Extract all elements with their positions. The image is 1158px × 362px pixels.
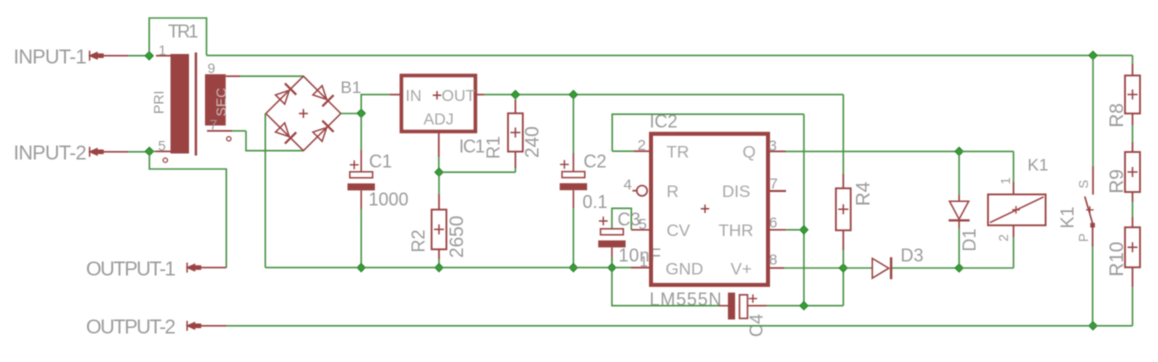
pin stub TR1 pin5	[156, 150, 171, 152]
resistor R8	[1125, 76, 1140, 114]
junction ADJ / R1 / R2	[435, 168, 443, 176]
resistor R9	[1125, 152, 1140, 192]
polarity + of K1 coil	[1012, 206, 1020, 214]
polarity + of C2	[560, 160, 569, 169]
junction Q / D1 top	[955, 147, 963, 155]
wire rail down to R4	[842, 95, 844, 174]
svg-text:R4: R4	[854, 181, 875, 206]
pin stub IC2 Q	[768, 150, 786, 152]
junction bridge out / C1 / IC1 IN	[357, 109, 365, 117]
polarity + of C4	[749, 294, 757, 302]
lead relay K1 pin1	[1013, 182, 1015, 194]
svg-text:0.1: 0.1	[583, 192, 608, 212]
wire relay pin2 up	[1013, 237, 1015, 268]
wire D1 node to relay pin2 corner	[959, 267, 1013, 269]
wire bridge DC+ to node	[341, 113, 361, 115]
timer IC2 box	[651, 134, 768, 285]
lead R10 top	[1132, 217, 1134, 227]
resistor R4	[836, 188, 851, 230]
pin stub IC1 IN	[390, 94, 401, 96]
wire INPUT-1 lead	[103, 55, 128, 57]
pin stub IC2 V+	[768, 267, 784, 269]
polarity dot TR1 secondary	[227, 137, 231, 141]
svg-text:3: 3	[769, 138, 777, 155]
transformer TR1 core lines	[195, 53, 197, 156]
svg-text:D3: D3	[901, 246, 924, 266]
wire C1 to gnd bus	[360, 209, 362, 268]
wire INPUT-2 lead	[103, 151, 128, 153]
pin stub IC2 GND	[631, 267, 650, 269]
junction C1 / gnd bus	[357, 264, 365, 272]
wire node down to C1	[360, 113, 362, 150]
svg-text:2650: 2650	[447, 216, 468, 258]
lead R4 top	[842, 174, 844, 188]
wire K1 contact from rail	[1092, 55, 1094, 165]
wire R4 bottom to V+ node	[842, 250, 844, 268]
wire ADJ node to R1 bottom	[439, 171, 515, 173]
pinhead J4 OUTPUT-2	[186, 321, 202, 331]
svg-text:4: 4	[624, 177, 632, 194]
polarity dot TR1 primary	[163, 158, 167, 162]
pin stub IC1 OUT	[476, 94, 484, 96]
svg-text:2: 2	[638, 137, 646, 154]
wire R1 top from rail	[514, 95, 516, 100]
lead R10 bottom	[1132, 267, 1134, 287]
resistor R2	[432, 210, 447, 250]
wire INPUT-2 to node	[128, 151, 149, 153]
bridge B1 diode lower-right	[313, 121, 334, 142]
pin stub TR1 pin7	[207, 130, 232, 132]
svg-text:PRI: PRI	[151, 91, 167, 114]
wire INPUT-1 to node	[128, 55, 149, 57]
lead C4 right	[748, 305, 767, 307]
lead C4 left	[719, 305, 728, 307]
wire gnd bus from bridge	[264, 114, 266, 268]
bridge B1 diode upper-left	[276, 83, 297, 104]
pin stub TR1 pin9	[226, 75, 240, 77]
bridge B1 diode lower-left	[276, 123, 297, 144]
lead R4 bottom	[842, 230, 844, 250]
lead R9 top	[1132, 142, 1134, 152]
lead R2 top	[438, 194, 440, 210]
wire D3 cathode to D1 node	[892, 267, 959, 269]
svg-text:INPUT-1: INPUT-1	[14, 47, 87, 69]
svg-text:S: S	[1076, 180, 1091, 189]
wire regulator out rail	[484, 94, 843, 96]
wire TR1 pin9 to bridge AC1	[240, 75, 303, 77]
svg-text:V+: V+	[731, 260, 752, 279]
wire THR column vertical	[803, 114, 805, 306]
svg-text:8: 8	[769, 252, 777, 269]
transformer TR1 primary winding	[171, 54, 190, 154]
resistor R1	[508, 113, 523, 151]
capacitor C2	[560, 172, 587, 191]
relay K1 contact lever	[1085, 197, 1093, 224]
junction bottom rail / K1 contact	[1089, 322, 1097, 330]
wire OUTPUT-1 lead	[200, 267, 226, 269]
svg-text:C2: C2	[584, 152, 607, 172]
polarity + of K1 contact	[1086, 206, 1094, 214]
capacitor C3	[598, 229, 625, 248]
transformer TR1 secondary winding	[205, 74, 226, 125]
svg-text:R1: R1	[484, 136, 504, 159]
bridge B1 diode upper-right	[313, 86, 334, 107]
svg-text:R2: R2	[409, 229, 429, 252]
svg-text:1: 1	[640, 254, 648, 271]
pin stub IC2 DIS	[768, 190, 786, 192]
lead C3 bottom	[611, 247, 613, 261]
wire R8 to R9	[1132, 125, 1134, 142]
pin stub IC1 ADJ	[438, 132, 440, 157]
wire node to D3 anode	[843, 267, 872, 269]
svg-text:IC1: IC1	[459, 137, 485, 157]
svg-text:6: 6	[769, 215, 777, 232]
svg-text:C3: C3	[618, 210, 641, 230]
wire Q pin out	[786, 150, 960, 152]
wire C3 to gnd bus	[611, 257, 613, 268]
pinhead J1 INPUT-1	[88, 51, 104, 61]
svg-text:CV: CV	[667, 221, 691, 240]
capacitor C1	[348, 172, 375, 191]
polarity + of IC2	[701, 205, 709, 213]
svg-text:THR: THR	[719, 221, 754, 240]
bridge rectifier B1 outline	[266, 76, 341, 151]
junction out rail / C2	[569, 90, 577, 98]
pin stub IC2 CV	[631, 229, 650, 231]
svg-text:9: 9	[208, 60, 216, 76]
wire relay pin1 down	[1013, 151, 1015, 182]
junction INPUT-2 / TR1 pin5 / OUTPUT-1	[145, 147, 153, 155]
svg-text:TR: TR	[667, 143, 690, 162]
wire D1 top	[958, 151, 960, 195]
pin stub IC2 TR	[634, 150, 650, 152]
lead R2 bottom	[438, 249, 440, 259]
polarity + of bridge B1	[299, 109, 308, 118]
wire THR pin to column	[786, 229, 804, 231]
polarity + of IC1	[433, 91, 441, 99]
pin stub IC2 THR	[768, 229, 786, 231]
inversion bubble IC2 R pin	[637, 186, 647, 196]
svg-text:INPUT-2: INPUT-2	[14, 143, 87, 165]
wire C4 to V+ node	[767, 305, 844, 307]
pinhead J3 OUTPUT-1	[186, 263, 202, 273]
svg-text:OUTPUT-1: OUTPUT-1	[86, 259, 176, 281]
wire gnd bus horizontal	[265, 267, 631, 269]
wire R2 bottom to gnd bus	[438, 259, 440, 268]
wire TR1 pin7 to bridge AC2	[246, 131, 303, 151]
svg-text:R8: R8	[1107, 103, 1128, 127]
svg-text:2: 2	[996, 234, 1011, 241]
svg-text:1: 1	[998, 177, 1013, 184]
polarity + of C1	[350, 160, 359, 169]
wire gnd node down to C4	[612, 268, 719, 306]
svg-text:Q: Q	[743, 143, 756, 162]
lead K1 contact P	[1092, 228, 1094, 247]
svg-text:TR1: TR1	[168, 22, 198, 42]
svg-text:DIS: DIS	[722, 182, 750, 201]
wire node to TR1 pin5	[149, 150, 156, 152]
svg-text:7: 7	[770, 176, 778, 193]
polarity + of C3	[599, 217, 608, 226]
junction THR / vertical	[800, 226, 808, 234]
wire INPUT-1 bridge over TR1	[149, 18, 206, 56]
svg-text:K1: K1	[1058, 206, 1078, 228]
svg-text:240: 240	[523, 126, 544, 158]
junction out rail / R1	[511, 90, 519, 98]
capacitor C4	[728, 293, 748, 320]
svg-text:GND: GND	[666, 260, 704, 279]
wire top rail +mains	[207, 54, 1133, 56]
svg-text:OUTPUT-2: OUTPUT-2	[86, 317, 176, 339]
wire K1 contact to bottom rail	[1092, 247, 1094, 326]
lead R8 top	[1132, 64, 1134, 76]
voltage regulator IC1 box	[401, 76, 475, 132]
diode D3	[872, 257, 891, 279]
lead C1 bottom	[360, 190, 362, 209]
diode D1	[949, 201, 970, 220]
lead C2 bottom	[572, 190, 574, 208]
svg-text:B1: B1	[341, 78, 362, 97]
svg-text:SEC: SEC	[213, 88, 229, 117]
svg-text:OUT: OUT	[442, 88, 476, 105]
junction C4 line / THR column	[800, 302, 808, 310]
wire C2 top from rail	[572, 95, 574, 153]
svg-text:R: R	[667, 182, 679, 201]
lead D1 cathode	[958, 220, 960, 228]
svg-text:1000: 1000	[369, 190, 409, 210]
wire R10 to bottom rail	[1132, 287, 1134, 326]
wire TR pin to left	[612, 150, 634, 152]
wire bottom rail	[227, 325, 1133, 327]
junction INPUT-1 / TR1 pin1	[145, 52, 153, 60]
svg-text:1: 1	[159, 42, 167, 58]
lead R1 bottom	[514, 152, 516, 168]
lead R9 bottom	[1132, 192, 1134, 202]
lead relay K1 pin2	[1013, 225, 1015, 237]
junction V+ / R4 / C4 / D3	[839, 264, 847, 272]
lead D1 anode	[958, 195, 960, 201]
wire C2 to gnd bus	[572, 208, 574, 268]
wire OUTPUT-2 lead	[200, 325, 227, 327]
svg-text:R10: R10	[1107, 242, 1128, 277]
lead R1 top	[514, 100, 516, 113]
junction R2 / gnd bus	[435, 264, 443, 272]
junction D1 bottom	[955, 264, 963, 272]
svg-text:K1: K1	[1028, 156, 1049, 175]
svg-text:P: P	[1076, 233, 1091, 242]
resistor R10	[1125, 227, 1140, 267]
svg-text:D1: D1	[960, 228, 980, 251]
junction C3 / gnd bus / C4	[608, 264, 616, 272]
pinhead J2 INPUT-2	[88, 147, 104, 157]
pin stub IC2 R	[633, 190, 637, 192]
junction C2 / gnd bus	[569, 264, 577, 272]
wire R9 to R10	[1132, 202, 1134, 217]
wire node up to IC1 IN	[361, 95, 390, 114]
wire V+ node down stub	[842, 268, 844, 306]
svg-text:IN: IN	[406, 88, 422, 105]
svg-text:R9: R9	[1107, 169, 1128, 193]
relay K1 contact pole square	[1090, 223, 1095, 228]
lead K1 contact S	[1092, 166, 1094, 195]
wire TR up and over to THR column	[612, 114, 804, 151]
lead R8 bottom	[1132, 114, 1134, 126]
wire R1 bottom to ADJ line	[514, 168, 516, 172]
wire R2 top	[438, 172, 440, 194]
relay K1 coil diagonal	[990, 197, 1044, 223]
wire D1 bottom	[958, 228, 960, 268]
wire TR1 pin7 stub extension	[232, 130, 246, 132]
wire ADJ down	[438, 157, 440, 172]
svg-text:5: 5	[639, 216, 647, 233]
wire Q node to relay	[959, 150, 1013, 152]
wire rail to R8	[1132, 55, 1134, 64]
pin stub TR1 pin1	[156, 55, 171, 57]
svg-text:C1: C1	[369, 152, 392, 172]
wire V+ pin8 to node	[784, 267, 843, 269]
lead C1 top	[360, 150, 362, 172]
wire OUTPUT-1 down-right-down	[149, 151, 226, 267]
wire C3 top to CV	[612, 208, 631, 230]
junction top rail / K1 contact	[1089, 51, 1097, 59]
lead C2 top	[572, 153, 574, 172]
relay K1 coil box	[988, 194, 1046, 225]
svg-text:ADJ: ADJ	[424, 112, 454, 129]
